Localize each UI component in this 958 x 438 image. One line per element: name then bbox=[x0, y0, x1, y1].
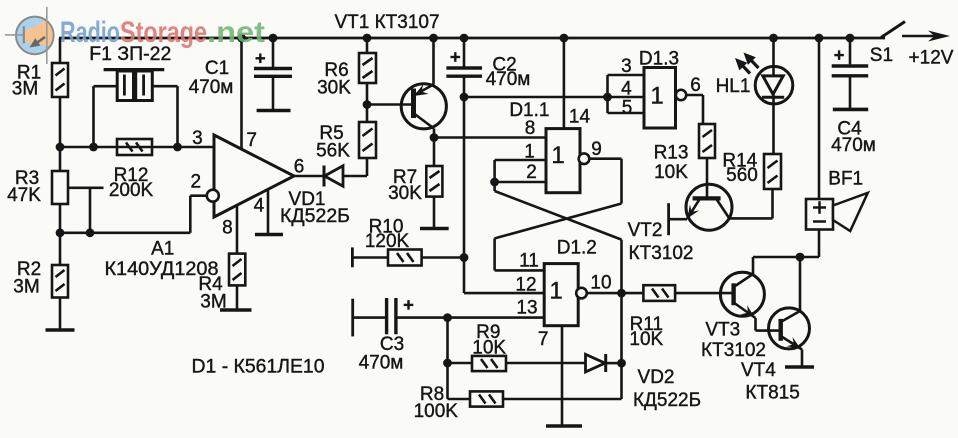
wire RS cross-coupling bbox=[495, 159, 622, 399]
svg-text:C1: C1 bbox=[205, 58, 229, 79]
ground R2 bbox=[46, 328, 75, 332]
svg-text:VD2: VD2 bbox=[638, 367, 675, 388]
svg-text:200K: 200K bbox=[109, 180, 154, 201]
svg-text:КТ815: КТ815 bbox=[745, 383, 799, 404]
svg-text:3М: 3М bbox=[12, 79, 38, 100]
svg-text:2: 2 bbox=[526, 162, 537, 183]
svg-text:VT2: VT2 bbox=[628, 220, 663, 241]
svg-text:9: 9 bbox=[591, 139, 602, 160]
svg-text:470м: 470м bbox=[831, 135, 876, 156]
svg-text:4: 4 bbox=[621, 79, 632, 100]
svg-text:3: 3 bbox=[621, 56, 632, 77]
wire inverting input rail bbox=[60, 196, 207, 233]
svg-text:8: 8 bbox=[222, 218, 233, 239]
svg-text:2: 2 bbox=[191, 172, 202, 193]
svg-text:3М: 3М bbox=[13, 277, 39, 298]
svg-text:RadioStorage.net: RadioStorage.net bbox=[60, 16, 265, 49]
svg-text:470м: 470м bbox=[486, 69, 531, 90]
svg-text:VT4: VT4 bbox=[741, 360, 776, 381]
ground C4 bbox=[833, 108, 868, 112]
ground R4 bbox=[220, 308, 252, 312]
svg-text:560: 560 bbox=[726, 165, 758, 186]
ground C1 bbox=[257, 109, 291, 113]
svg-text:10K: 10K bbox=[472, 338, 506, 359]
gate D1.2 bbox=[448, 264, 644, 426]
svg-text:14: 14 bbox=[569, 107, 591, 128]
resistor R14 bbox=[764, 154, 781, 218]
svg-text:3М: 3М bbox=[200, 292, 226, 313]
capacitor C1 bbox=[254, 38, 292, 111]
svg-text:47K: 47K bbox=[7, 185, 41, 206]
resistor R7 bbox=[426, 138, 442, 229]
resistor R13 bbox=[699, 124, 715, 198]
svg-text:13: 13 bbox=[516, 298, 537, 319]
svg-text:100K: 100K bbox=[414, 401, 459, 422]
svg-text:VT3: VT3 bbox=[705, 320, 740, 341]
resistor R2 bbox=[52, 233, 68, 330]
svg-text:BF1: BF1 bbox=[828, 169, 863, 190]
gate D1.3 bbox=[608, 68, 704, 129]
svg-text:1: 1 bbox=[650, 83, 663, 110]
svg-text:7: 7 bbox=[246, 130, 257, 151]
svg-text:+12V: +12V bbox=[909, 48, 954, 69]
switch S1 bbox=[881, 22, 950, 42]
svg-text:R13: R13 bbox=[654, 143, 689, 164]
LED HL1 bbox=[735, 38, 793, 154]
svg-text:1: 1 bbox=[551, 142, 564, 169]
svg-text:120K: 120K bbox=[365, 231, 410, 252]
ground VT4 bbox=[785, 365, 814, 369]
svg-text:56K: 56K bbox=[316, 141, 350, 162]
ground op-amp pin4 bbox=[255, 233, 283, 237]
svg-text:1: 1 bbox=[549, 278, 562, 305]
resistor R6 bbox=[359, 38, 376, 105]
wire y97 to D1.3 bbox=[464, 96, 644, 99]
svg-text:12: 12 bbox=[515, 275, 536, 296]
svg-text:А1: А1 bbox=[151, 239, 174, 260]
svg-text:7: 7 bbox=[538, 329, 549, 350]
speaker BF1 bbox=[806, 38, 868, 257]
wire op-amp output bbox=[294, 175, 324, 178]
svg-text:470м: 470м bbox=[189, 77, 234, 98]
svg-text:3: 3 bbox=[192, 128, 203, 149]
wire collectors to BF1 bbox=[753, 256, 819, 259]
svg-text:1: 1 bbox=[524, 142, 535, 163]
gate D1.1 bbox=[495, 38, 622, 193]
ground D1.2 pin7 bbox=[546, 424, 582, 428]
svg-text:8: 8 bbox=[525, 118, 536, 139]
wire C2 bottom column bbox=[463, 97, 466, 293]
wire top +12V bus bbox=[59, 37, 885, 40]
capacitor C4 bbox=[832, 38, 869, 109]
diode VD2 bbox=[586, 354, 622, 372]
svg-text:30K: 30K bbox=[388, 183, 422, 204]
ground R7 bbox=[420, 227, 449, 231]
svg-text:КТ3102: КТ3102 bbox=[629, 243, 694, 264]
svg-text:КД522Б: КД522Б bbox=[280, 206, 350, 227]
svg-text:10: 10 bbox=[590, 273, 611, 294]
capacitor C2 bbox=[446, 38, 482, 97]
svg-text:D1.2: D1.2 bbox=[557, 238, 597, 259]
svg-text:HL1: HL1 bbox=[716, 76, 751, 97]
transistor VT1 bbox=[401, 38, 446, 138]
logo RadioStorage.net bbox=[5, 7, 265, 64]
transistor VT2 bbox=[669, 184, 773, 235]
svg-text:10K: 10K bbox=[654, 162, 688, 183]
piezo F1 bbox=[94, 70, 178, 147]
svg-text:S1: S1 bbox=[870, 45, 893, 66]
svg-text:30K: 30K bbox=[317, 78, 351, 99]
svg-text:4: 4 bbox=[254, 196, 265, 217]
capacitor C3 bbox=[353, 298, 448, 336]
resistor R1 bbox=[52, 38, 68, 147]
svg-text:470м: 470м bbox=[359, 353, 404, 374]
wire VT1 base bbox=[367, 103, 413, 106]
resistor R9 bbox=[448, 356, 586, 371]
resistor R8 bbox=[448, 391, 622, 406]
svg-text:11: 11 bbox=[519, 251, 539, 272]
resistor R3 bbox=[52, 147, 104, 233]
resistor R10 bbox=[352, 247, 464, 267]
svg-text:6: 6 bbox=[294, 157, 305, 178]
svg-text:VT1 КТ3107: VT1 КТ3107 bbox=[334, 12, 439, 33]
wire VT1 collector to D1.1 pin8 bbox=[434, 136, 546, 139]
svg-text:КД522Б: КД522Б bbox=[633, 390, 701, 411]
resistor R5 bbox=[359, 105, 376, 159]
op-amp A1 bbox=[207, 38, 294, 254]
transistor VT4 bbox=[769, 257, 810, 367]
diode VD1 bbox=[324, 158, 367, 187]
resistor R4 bbox=[229, 254, 245, 310]
svg-text:D1.3: D1.3 bbox=[639, 49, 679, 70]
svg-text:10K: 10K bbox=[629, 329, 663, 350]
resistor R11 bbox=[643, 285, 733, 301]
svg-text:КТ3102: КТ3102 bbox=[701, 340, 766, 361]
resistor R12 bbox=[117, 139, 152, 155]
wire node row y147 bbox=[60, 146, 214, 149]
transistor VT3 bbox=[720, 257, 780, 331]
svg-text:6: 6 bbox=[690, 75, 701, 96]
svg-text:5: 5 bbox=[622, 98, 633, 119]
wire C3/R9/R8 column bbox=[446, 318, 449, 399]
svg-text:D1 - К561ЛЕ10: D1 - К561ЛЕ10 bbox=[192, 356, 325, 377]
